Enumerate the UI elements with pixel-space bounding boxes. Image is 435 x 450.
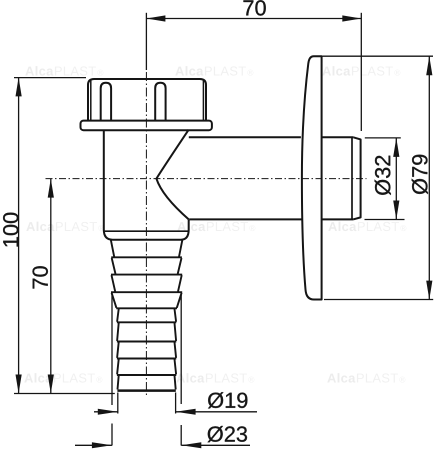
socket rim line bbox=[351, 138, 353, 220]
watermark 2 Alca bbox=[175, 66, 203, 76]
label D19 bbox=[208, 392, 247, 408]
cone to wall pipe bbox=[156, 130, 188, 220]
socket end face bbox=[354, 137, 361, 219]
arrow D19 right bbox=[176, 409, 196, 415]
watermark 7 reg-mark bbox=[96, 377, 102, 383]
hose ridge 4 bbox=[116, 307, 177, 309]
barb transition sides bbox=[112, 293, 182, 308]
label D23 bbox=[208, 426, 247, 442]
label 70 inner bbox=[33, 266, 48, 288]
cap side inner line left bbox=[90, 80, 92, 121]
arrow D32 top bbox=[393, 138, 399, 157]
wall pipe bottom edge bbox=[189, 218, 353, 220]
dim D23 extension right bbox=[180, 294, 182, 446]
dim D32 line bbox=[395, 138, 397, 220]
cap rib slot 1 bbox=[101, 83, 111, 121]
barb segment B sides bbox=[112, 258, 182, 274]
dim D19 extension left bbox=[117, 393, 119, 414]
barb ridge 3 bbox=[111, 291, 182, 293]
arrow 70 inner bottom bbox=[48, 375, 54, 394]
watermark 1 PLAST bbox=[55, 66, 96, 75]
arrow D79 bottom bbox=[426, 281, 432, 300]
watermark 8 reg-mark bbox=[248, 377, 254, 383]
watermark 2 PLAST bbox=[205, 66, 246, 75]
dim D23 line left part bbox=[75, 444, 112, 446]
dim 100 top extension bbox=[14, 77, 86, 79]
dim D19 extension right bbox=[175, 393, 177, 414]
arrow 70 right bbox=[342, 15, 361, 21]
watermark 4 Alca bbox=[26, 222, 54, 232]
dim D23 extension left bbox=[111, 294, 113, 446]
watermark 8 Alca bbox=[176, 373, 204, 383]
arrow D79 top bbox=[426, 56, 432, 75]
arrow 100 bottom bbox=[16, 375, 22, 394]
cap rib slot 2 bbox=[155, 83, 165, 121]
wall flange (rosette) bbox=[302, 56, 322, 299]
dim D79 bottom extension bbox=[324, 299, 433, 301]
watermark 9 PLAST bbox=[357, 373, 398, 382]
label 100 bbox=[3, 213, 18, 247]
barb ridge 2 bbox=[111, 274, 182, 276]
watermark 5 Alca bbox=[177, 222, 205, 232]
watermark 5 reg-mark bbox=[249, 225, 255, 231]
dim D32 top extension bbox=[365, 137, 401, 139]
arrow 70 inner top bbox=[48, 179, 54, 198]
arrow D19 left bbox=[98, 409, 118, 415]
body left edge with bottom flare corner bbox=[104, 130, 189, 240]
body flare ridge line bbox=[104, 230, 189, 232]
watermark 3 PLAST bbox=[352, 66, 393, 75]
watermark 4 reg-mark bbox=[98, 225, 104, 231]
dim 70 left extension bbox=[145, 13, 147, 70]
arrow 100 top bbox=[16, 77, 22, 96]
cap flange bbox=[81, 121, 212, 131]
dim D19 line left part bbox=[94, 411, 118, 413]
watermark 5 PLAST bbox=[207, 222, 248, 231]
watermark 6 Alca bbox=[328, 222, 356, 232]
hose ridge 8 bbox=[117, 374, 176, 376]
dim D19 line right part bbox=[176, 411, 257, 413]
hose segment 3 sides bbox=[117, 342, 176, 358]
arrow D23 right bbox=[181, 442, 201, 448]
hose segment 5 sides bbox=[118, 376, 176, 390]
watermark 6 PLAST bbox=[358, 222, 399, 231]
hose ridge 7 bbox=[117, 358, 176, 360]
dim 100 line bbox=[18, 77, 20, 393]
horizontal centerline bbox=[46, 178, 367, 180]
watermark 7 Alca bbox=[24, 373, 52, 383]
label D32 bbox=[375, 156, 391, 195]
dim D79 line bbox=[428, 56, 430, 299]
label 70 top bbox=[243, 0, 265, 15]
watermark 1 reg-mark bbox=[97, 70, 103, 76]
watermark 1 Alca bbox=[25, 66, 53, 76]
arrow 70 left bbox=[146, 15, 165, 21]
cap nut outline bbox=[88, 79, 206, 121]
watermark 8 PLAST bbox=[206, 373, 247, 382]
dim 70 right extension bbox=[360, 13, 362, 131]
arrow D32 bottom bbox=[393, 201, 399, 220]
wall pipe top edge bbox=[189, 136, 354, 138]
watermark 3 reg-mark bbox=[394, 70, 400, 76]
watermark 7 PLAST bbox=[54, 373, 95, 382]
dim D32 bottom extension bbox=[365, 219, 405, 221]
dim D79 top extension bbox=[323, 55, 434, 57]
dim 70 inner line bbox=[50, 179, 52, 394]
watermark 9 reg-mark bbox=[399, 377, 405, 383]
arrow D23 left bbox=[92, 442, 112, 448]
watermark 3 Alca bbox=[322, 66, 350, 76]
hose segment 1 sides bbox=[117, 309, 176, 322]
hose ridge 5 bbox=[117, 321, 176, 323]
vertical centerline bbox=[145, 72, 147, 397]
barb segment A sides bbox=[111, 240, 183, 257]
watermark 6 reg-mark bbox=[400, 225, 406, 231]
label D79 bbox=[412, 155, 428, 194]
hose segment 4 sides bbox=[117, 359, 176, 374]
barb segment C sides bbox=[112, 275, 182, 291]
dim 70 top line bbox=[146, 18, 361, 20]
dim 100/70 bottom extension bbox=[14, 393, 115, 395]
hose end bottom edge bbox=[117, 389, 175, 392]
watermark 2 reg-mark bbox=[247, 70, 253, 76]
watermark 4 PLAST bbox=[56, 222, 97, 231]
barb ridge 1 bbox=[111, 256, 182, 258]
hose segment 2 sides bbox=[117, 323, 176, 341]
dim D23 line right part bbox=[181, 444, 250, 446]
hose ridge 6 bbox=[117, 341, 176, 343]
watermark 9 Alca bbox=[327, 373, 355, 383]
cap side inner line right bbox=[202, 80, 204, 121]
